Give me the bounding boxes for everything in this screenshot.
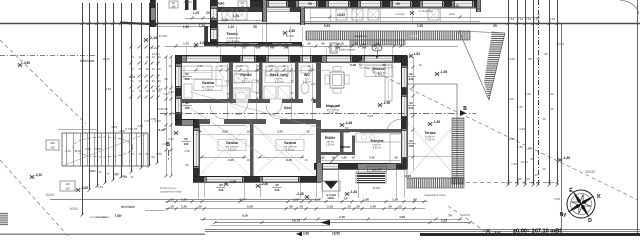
svg-text:mosógép: mosógép	[395, 14, 405, 16]
svg-text:csapadékvíz: csapadékvíz	[353, 35, 367, 38]
svg-text:160: 160	[65, 187, 70, 191]
svg-text:55: 55	[260, 42, 264, 46]
svg-text:3,23: 3,23	[533, 17, 539, 21]
svg-text:pm 240: pm 240	[372, 168, 382, 172]
svg-text:30: 30	[388, 205, 392, 209]
svg-text:-3,10: -3,10	[35, 173, 43, 177]
svg-text:35,97 m²: 35,97 m²	[328, 111, 338, 114]
svg-text:10: 10	[536, 57, 540, 61]
svg-text:Terasz: Terasz	[424, 131, 436, 135]
svg-text:55: 55	[493, 24, 497, 28]
svg-text:70: 70	[448, 214, 452, 218]
svg-text:3,03 m²: 3,03 m²	[275, 80, 284, 83]
svg-text:±0,00= 207,10 mBf: ±0,00= 207,10 mBf	[513, 229, 561, 235]
svg-text:10: 10	[138, 152, 142, 156]
svg-text:4,00: 4,00	[399, 215, 405, 219]
svg-text:10: 10	[130, 175, 134, 179]
svg-text:Hőszivattyú: Hőszivattyú	[340, 44, 354, 48]
svg-text:110: 110	[65, 182, 70, 186]
svg-text:240: 240	[171, 6, 176, 9]
svg-text:30: 30	[289, 205, 293, 209]
svg-text:10: 10	[139, 55, 142, 59]
svg-text:-2,45: -2,45	[296, 192, 304, 196]
svg-text:D: D	[588, 218, 592, 224]
svg-text:90: 90	[409, 72, 413, 76]
svg-text:F1: F1	[375, 47, 379, 51]
svg-text:3,93: 3,93	[97, 185, 103, 189]
svg-text:1,87: 1,87	[517, 105, 523, 109]
svg-text:90: 90	[151, 155, 155, 159]
svg-text:36: 36	[158, 79, 161, 83]
svg-text:K: K	[597, 194, 601, 200]
svg-text:1,70: 1,70	[183, 42, 189, 46]
svg-text:90: 90	[225, 42, 229, 46]
svg-text:90: 90	[185, 72, 189, 76]
svg-text:8,50: 8,50	[105, 87, 111, 91]
svg-text:-1,60: -1,60	[563, 156, 571, 160]
svg-text:Csapadékvíz lefolyó: Csapadékvíz lefolyó	[424, 194, 446, 197]
svg-text:-2,55: -2,55	[229, 180, 237, 184]
svg-text:2,40: 2,40	[517, 17, 523, 21]
svg-text:30: 30	[146, 67, 149, 71]
svg-text:30: 30	[198, 205, 202, 209]
svg-text:-2,60: -2,60	[23, 61, 31, 65]
svg-text:45: 45	[145, 152, 149, 156]
svg-text:10: 10	[90, 169, 94, 173]
svg-text:10: 10	[398, 205, 402, 209]
svg-text:8,62 m²: 8,62 m²	[373, 146, 382, 149]
svg-text:10: 10	[106, 171, 110, 175]
svg-text:1,50: 1,50	[156, 152, 162, 156]
svg-text:1,65: 1,65	[525, 147, 531, 151]
svg-text:10: 10	[542, 167, 546, 171]
svg-text:1,17¹: 1,17¹	[314, 197, 321, 201]
svg-text:240: 240	[184, 142, 189, 146]
svg-text:90: 90	[293, 42, 297, 46]
svg-text:55: 55	[253, 25, 257, 29]
svg-text:36: 36	[152, 79, 155, 83]
svg-text:90: 90	[275, 183, 279, 187]
svg-text:61°: 61°	[345, 126, 349, 130]
svg-text:10: 10	[550, 107, 554, 111]
svg-text:Szoba: Szoba	[226, 140, 239, 145]
svg-text:Kamra: Kamra	[340, 145, 350, 149]
svg-text:90: 90	[396, 2, 400, 6]
svg-text:2,45: 2,45	[370, 205, 376, 209]
svg-text:20: 20	[206, 11, 210, 15]
svg-text:9,00: 9,00	[95, 147, 101, 151]
svg-text:25: 25	[530, 157, 534, 161]
svg-text:7,08¹: 7,08¹	[114, 214, 122, 218]
svg-text:4,40: 4,40	[519, 127, 525, 131]
svg-text:9,35: 9,35	[324, 24, 330, 28]
svg-text:90: 90	[413, 197, 417, 201]
svg-text:240: 240	[219, 188, 224, 192]
svg-text:16: 16	[542, 117, 546, 121]
svg-text:10: 10	[114, 173, 118, 177]
svg-text:10: 10	[139, 89, 142, 93]
svg-text:2,10: 2,10	[248, 9, 254, 13]
svg-text:-2,40: -2,40	[158, 128, 165, 132]
svg-text:10: 10	[146, 55, 149, 59]
svg-text:8,50: 8,50	[242, 214, 248, 218]
svg-text:2,59: 2,59	[158, 107, 164, 111]
svg-text:2,05: 2,05	[508, 97, 514, 101]
svg-text:2,15: 2,15	[327, 205, 333, 209]
svg-text:20,71 m²: 20,71 m²	[374, 74, 384, 77]
svg-text:90: 90	[409, 101, 413, 105]
svg-text:2,23: 2,23	[225, 79, 231, 83]
svg-text:2,10: 2,10	[204, 42, 210, 46]
svg-text:15,00: 15,00	[102, 57, 110, 61]
svg-text:20,00: 20,00	[462, 213, 470, 217]
svg-text:1,52: 1,52	[414, 52, 421, 56]
svg-text:90: 90	[219, 183, 223, 187]
svg-text:3,25: 3,25	[277, 130, 283, 134]
svg-text:90: 90	[185, 163, 189, 167]
svg-text:1,50: 1,50	[392, 197, 398, 201]
svg-text:2,10: 2,10	[275, 42, 281, 46]
svg-text:30: 30	[152, 67, 155, 71]
svg-text:2,66: 2,66	[222, 130, 228, 134]
svg-text:10: 10	[146, 89, 149, 93]
svg-text:10: 10	[122, 174, 126, 178]
svg-text:1,82: 1,82	[517, 145, 523, 149]
svg-text:10: 10	[98, 170, 102, 174]
svg-text:9,99 m²: 9,99 m²	[286, 148, 295, 151]
svg-text:-1,55: -1,55	[440, 70, 448, 74]
svg-text:46: 46	[198, 130, 202, 134]
svg-text:1,25: 1,25	[319, 156, 325, 160]
svg-text:4,10: 4,10	[65, 149, 71, 153]
svg-text:Előtér: Előtér	[325, 136, 336, 140]
svg-text:3,50: 3,50	[549, 17, 555, 21]
svg-text:Szoba: Szoba	[202, 80, 215, 85]
svg-text:10: 10	[170, 197, 174, 201]
svg-text:19,50: 19,50	[556, 42, 564, 46]
svg-text:150: 150	[376, 187, 381, 190]
svg-text:2,29: 2,29	[441, 219, 447, 223]
svg-text:-3,10: -3,10	[494, 230, 501, 234]
svg-text:90: 90	[321, 42, 325, 46]
svg-text:10: 10	[246, 130, 250, 134]
svg-text:-2,46: -2,46	[345, 121, 353, 125]
svg-text:-2,10: -2,10	[149, 36, 158, 40]
svg-text:55: 55	[528, 57, 532, 61]
svg-text:36: 36	[131, 79, 134, 83]
svg-text:22¹: 22¹	[344, 197, 348, 201]
svg-text:36: 36	[146, 79, 149, 83]
svg-text:4,23: 4,23	[367, 114, 373, 118]
svg-text:228,50: 228,50	[585, 170, 595, 174]
svg-text:10: 10	[534, 173, 538, 177]
svg-text:17,18 m²: 17,18 m²	[425, 138, 435, 141]
svg-text:30: 30	[356, 205, 360, 209]
svg-text:2,30: 2,30	[85, 147, 91, 151]
svg-text:3,65: 3,65	[111, 125, 117, 129]
svg-text:60: 60	[518, 177, 522, 181]
svg-text:1,00: 1,00	[341, 156, 347, 160]
svg-text:10: 10	[131, 55, 134, 59]
svg-text:B: B	[463, 106, 467, 112]
svg-text:1,20: 1,20	[193, 11, 199, 15]
svg-text:3,50: 3,50	[509, 57, 515, 61]
svg-text:36: 36	[139, 79, 142, 83]
svg-text:10: 10	[131, 89, 134, 93]
svg-text:2,10: 2,10	[453, 4, 459, 8]
svg-text:1,35 m²: 1,35 m²	[326, 143, 335, 146]
svg-text:2,23: 2,23	[168, 137, 174, 141]
svg-text:10,30: 10,30	[520, 160, 528, 164]
svg-text:Közl.: Közl.	[284, 106, 292, 110]
svg-text:1,90: 1,90	[363, 197, 369, 201]
svg-text:10: 10	[331, 156, 335, 160]
svg-text:90: 90	[164, 77, 168, 81]
svg-text:-2,40: -2,40	[261, 182, 269, 186]
svg-text:240: 240	[275, 188, 280, 192]
svg-text:18,50: 18,50	[332, 232, 340, 236]
svg-text:1,50: 1,50	[184, 149, 190, 153]
svg-text:D=100: D=100	[159, 34, 168, 38]
svg-text:1,50: 1,50	[417, 24, 423, 28]
svg-text:150: 150	[409, 144, 414, 148]
svg-text:105: 105	[50, 146, 55, 150]
svg-text:150: 150	[185, 77, 190, 81]
svg-text:50,00: 50,00	[46, 193, 54, 197]
svg-text:45: 45	[544, 52, 548, 56]
svg-text:csapadékvíz: csapadékvíz	[96, 216, 111, 219]
svg-text:10: 10	[158, 89, 161, 93]
svg-text:Ny: Ny	[560, 212, 567, 218]
svg-text:2,45: 2,45	[369, 156, 375, 160]
svg-text:45: 45	[130, 152, 134, 156]
svg-text:10: 10	[299, 205, 303, 209]
svg-text:10: 10	[152, 89, 155, 93]
svg-text:5,38: 5,38	[350, 63, 356, 67]
svg-text:-1,52: -1,52	[350, 190, 358, 194]
svg-text:30: 30	[354, 42, 358, 46]
svg-text:1,20: 1,20	[181, 205, 187, 209]
svg-text:1,92¹: 1,92¹	[292, 197, 299, 201]
svg-text:-1,50: -1,50	[383, 101, 391, 105]
svg-text:kültéri egység: kültéri egység	[339, 48, 356, 52]
svg-text:3,50: 3,50	[525, 17, 531, 21]
svg-text:90: 90	[185, 101, 189, 105]
svg-text:17,38 m²: 17,38 m²	[203, 88, 213, 91]
svg-text:240: 240	[409, 77, 414, 81]
svg-text:60,00: 60,00	[70, 207, 78, 211]
svg-text:30: 30	[158, 67, 161, 71]
svg-text:30: 30	[550, 92, 554, 96]
svg-text:14,75: 14,75	[292, 219, 300, 223]
svg-text:10: 10	[526, 177, 530, 181]
svg-text:kazán: kazán	[449, 14, 456, 16]
svg-text:telekhatár: telekhatár	[80, 59, 95, 63]
svg-text:2,10: 2,10	[405, 174, 411, 178]
svg-text:300: 300	[50, 141, 55, 145]
svg-text:150: 150	[185, 106, 190, 110]
svg-text:90: 90	[164, 107, 168, 111]
svg-text:B: B	[166, 142, 170, 148]
svg-text:10: 10	[347, 205, 351, 209]
svg-text:1,60: 1,60	[525, 92, 531, 96]
svg-text:240: 240	[409, 106, 414, 110]
svg-text:1,50: 1,50	[183, 25, 189, 29]
svg-text:1,20: 1,20	[181, 197, 187, 201]
svg-text:csapadékvíz lefolyó: csapadékvíz lefolyó	[160, 191, 182, 194]
svg-text:Fürdő: Fürdő	[240, 72, 252, 77]
svg-text:55: 55	[307, 42, 311, 46]
svg-text:1,40: 1,40	[310, 82, 316, 86]
svg-text:D=100: D=100	[410, 34, 418, 38]
svg-text:90: 90	[409, 139, 413, 143]
svg-text:kerítés: kerítés	[152, 52, 160, 56]
svg-text:3,15: 3,15	[228, 158, 234, 162]
svg-text:-3,00: -3,00	[81, 186, 89, 190]
svg-text:2,60: 2,60	[303, 232, 309, 236]
svg-text:-1,52: -1,52	[433, 120, 441, 124]
svg-text:90: 90	[184, 137, 188, 141]
svg-text:3,50: 3,50	[508, 17, 514, 21]
svg-text:10: 10	[247, 158, 250, 162]
svg-text:Nappali: Nappali	[326, 103, 340, 108]
svg-text:3,93: 3,93	[554, 197, 560, 201]
svg-text:lakás: lakás	[328, 196, 335, 200]
svg-text:Szoba: Szoba	[284, 140, 297, 145]
svg-text:90: 90	[308, 2, 312, 6]
svg-text:9,26 m²: 9,26 m²	[228, 148, 237, 151]
svg-text:3,30: 3,30	[75, 149, 81, 153]
svg-text:2,25: 2,25	[339, 215, 345, 219]
svg-text:30: 30	[394, 156, 398, 160]
svg-text:10: 10	[305, 158, 308, 162]
svg-text:30: 30	[139, 67, 142, 71]
svg-text:10: 10	[351, 156, 355, 160]
svg-text:WC: WC	[304, 73, 310, 77]
svg-text:1,20: 1,20	[228, 25, 234, 29]
svg-text:3,70: 3,70	[509, 137, 515, 141]
svg-text:-1,60: -1,60	[288, 29, 296, 33]
svg-text:1,93: 1,93	[511, 162, 517, 166]
svg-text:2,87¹: 2,87¹	[155, 119, 162, 123]
svg-text:3,25: 3,25	[286, 158, 292, 162]
svg-text:telekhatár: telekhatár	[121, 205, 136, 209]
svg-text:4,23: 4,23	[168, 90, 174, 94]
svg-text:10: 10	[418, 63, 422, 67]
svg-text:30: 30	[383, 63, 386, 67]
svg-text:10: 10	[170, 205, 174, 209]
svg-text:2x(100): 2x(100)	[184, 0, 193, 4]
svg-text:5,27¹: 5,27¹	[239, 197, 246, 201]
svg-text:É: É	[569, 186, 573, 194]
svg-text:2,65: 2,65	[137, 124, 143, 128]
svg-text:6,50: 6,50	[247, 205, 253, 209]
svg-text:30: 30	[131, 67, 134, 71]
